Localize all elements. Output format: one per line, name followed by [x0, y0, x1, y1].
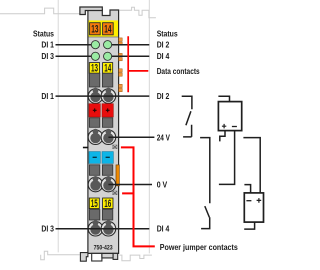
blue button right	[102, 152, 113, 164]
wire slot row3 right	[102, 165, 112, 176]
clamp terminal row2 left	[88, 130, 103, 145]
data contact 1	[119, 38, 123, 92]
red button left	[89, 104, 100, 117]
switch S1 bottom lead	[183, 125, 192, 137]
clamp terminal row4 left	[88, 221, 103, 236]
svg-text:750-423: 750-423	[94, 245, 114, 252]
power jumper contacts red marker	[121, 147, 155, 246]
wire row1 DI1-DI2	[56, 95, 150, 97]
clamp terminal row1 left	[88, 89, 103, 104]
switch S1 top lead	[182, 96, 192, 109]
svg-text:15: 15	[91, 198, 98, 210]
wire DI4 LED	[112, 55, 150, 57]
wire G1 plus lead	[220, 131, 225, 142]
svg-text:16: 16	[104, 198, 111, 210]
wire G2 bottom lead	[244, 222, 254, 229]
svg-text:13: 13	[91, 63, 98, 75]
faint rail outline top-left	[0, 8, 80, 14]
svg-text:Power jumper contacts: Power jumper contacts	[160, 243, 238, 252]
red button right	[102, 104, 113, 117]
terminal label 14	[103, 63, 113, 74]
module bottom release tab	[80, 253, 88, 262]
clamp terminal row2 right	[101, 130, 116, 145]
module body	[88, 10, 119, 254]
wire row3 0V	[108, 184, 152, 186]
wire slot row2 left	[89, 118, 99, 128]
clamp terminal row3 left	[88, 177, 103, 192]
terminal label 16	[103, 198, 113, 209]
svg-text:Status: Status	[33, 30, 54, 39]
contact marking bowtie row2	[113, 145, 118, 149]
status LED A3	[91, 52, 99, 60]
wire DI2 LED	[112, 44, 150, 46]
module top latch	[80, 7, 102, 15]
svg-text:DI 1: DI 1	[41, 92, 54, 101]
switch S2 bottom lead	[201, 217, 210, 228]
svg-text:DI 4: DI 4	[157, 52, 170, 61]
wire slot row4 right	[102, 210, 112, 221]
wire slot row1 left	[89, 73, 99, 87]
module bottom right foot	[113, 253, 118, 259]
svg-text:DI 3: DI 3	[41, 52, 54, 61]
marking square 14 top	[103, 23, 114, 35]
supply G1 minus	[232, 126, 237, 128]
wire slot row4 left	[89, 210, 99, 221]
guide line left	[57, 0, 59, 252]
tick mark left edge	[83, 147, 88, 149]
faint rail outline top-right	[119, 7, 155, 17]
wire G1 top stub	[218, 96, 229, 101]
wire 24V branch to S2	[200, 138, 210, 204]
supply G2 plus	[257, 198, 262, 203]
svg-text:24 V: 24 V	[157, 134, 171, 143]
wire DI1 LED	[56, 44, 92, 46]
contact marking bowtie row3	[113, 191, 118, 195]
supply G1 box	[218, 102, 241, 131]
faint rail outline bottom-left	[41, 251, 80, 259]
status LED A4	[104, 52, 112, 60]
clamp terminal row1 right	[101, 89, 116, 104]
svg-text:14: 14	[104, 63, 111, 75]
svg-text:DI 3: DI 3	[41, 224, 54, 233]
wire G1 minus lead	[219, 131, 235, 185]
wire slot row1 right	[102, 73, 112, 87]
wire G2 left lead	[244, 185, 250, 193]
wire row2 24V	[108, 136, 154, 138]
clamp terminal row4 right	[101, 221, 116, 236]
faint rail outline bottom-right	[119, 255, 151, 261]
data contact 2	[119, 53, 123, 56]
supply G1 plus	[222, 124, 226, 128]
data contact 4	[119, 84, 123, 87]
module bottom rail groove foot	[92, 253, 102, 261]
svg-text:DI 1: DI 1	[41, 40, 54, 49]
svg-text:14: 14	[104, 24, 111, 36]
terminal label 15	[89, 198, 99, 209]
yellow top band	[89, 20, 118, 36]
supply G2 minus	[246, 200, 251, 202]
svg-text:DI 2: DI 2	[157, 40, 170, 49]
wire slot row2 right	[102, 118, 112, 128]
switch S2 blade	[205, 206, 210, 217]
marking square 13 top	[90, 23, 101, 35]
wire DI3 LED	[56, 55, 92, 57]
wire to G2 top	[243, 138, 260, 193]
wire row4 DI3-DI4	[56, 228, 150, 230]
power jumper contact bar	[116, 165, 119, 186]
clamp terminal row3 right	[101, 177, 116, 192]
svg-text:DI 4: DI 4	[157, 224, 170, 233]
switch S1 blade	[186, 111, 191, 125]
blue button left	[89, 152, 100, 164]
module bottom step	[102, 253, 113, 258]
svg-text:Data contacts: Data contacts	[157, 67, 200, 76]
data contact 3	[119, 69, 123, 72]
supply G2 box	[244, 193, 263, 222]
status LED A1	[91, 41, 99, 49]
svg-text:Status: Status	[157, 30, 178, 39]
terminal label 13	[89, 63, 99, 74]
data contacts red marker	[128, 36, 148, 92]
svg-text:13: 13	[91, 24, 98, 36]
wire slot row3 left	[89, 165, 99, 176]
svg-text:0 V: 0 V	[157, 181, 168, 190]
guide line right	[148, 0, 150, 253]
svg-text:DI 2: DI 2	[157, 92, 170, 101]
status LED A2	[104, 41, 112, 49]
